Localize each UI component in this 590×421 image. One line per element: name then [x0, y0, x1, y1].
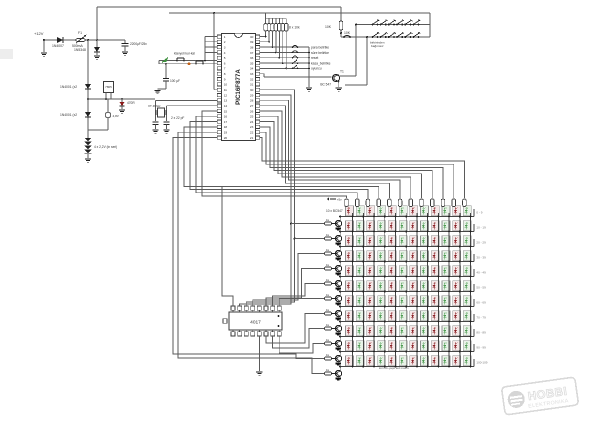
resistor RC8 column 8 [420, 199, 424, 207]
led D115 row 10 col 7 red [410, 341, 418, 351]
wire matrix row 5 [341, 269, 474, 277]
transistor Q8 row 7 [332, 310, 342, 316]
wire Q12 collector to row 11 [339, 365, 341, 371]
led D44 row 4 col 8 green [421, 251, 429, 261]
led D32 row 3 col 8 green [421, 236, 429, 246]
wire button common to ground [308, 47, 310, 87]
led D97 row 9 col 1 red [346, 326, 354, 336]
wire +12V down [43, 40, 45, 52]
svg-text:20: 20 [224, 136, 228, 140]
wire column 6 feed [399, 205, 401, 208]
svg-text:26: 26 [250, 109, 254, 113]
transistor Q12 row 11 [332, 370, 342, 376]
svg-text:6: 6 [224, 61, 226, 65]
wire column 9 feed [431, 205, 433, 208]
led D18 row 2 col 6 green [399, 221, 407, 231]
wire Q11 collector to row 10 [339, 350, 341, 356]
wire column 11 [459, 213, 461, 367]
resistor RC9 column 9 [430, 199, 434, 207]
svg-text:1N4001 (x2: 1N4001 (x2 [60, 113, 77, 117]
wire U1 pin 25 to matrix column 8 [260, 116, 421, 198]
svg-text:70 - 79: 70 - 79 [476, 316, 486, 320]
led D102 row 9 col 6 green [399, 326, 407, 336]
led D131 row 11 col 11 red [453, 356, 461, 366]
led D83 row 7 col 11 red [453, 296, 461, 306]
wire Q4 collector to row 3 [339, 245, 341, 251]
wire Q4 emitter ground [336, 257, 341, 261]
svg-text:14: 14 [224, 104, 228, 108]
svg-text:31: 31 [250, 83, 254, 87]
wire main vertical to regulator section [87, 40, 89, 138]
resistor R17 1k [325, 323, 332, 330]
wire matrix row 8 [341, 314, 474, 322]
wire matrix row 7 [341, 299, 474, 307]
wire matrix row 9 [341, 329, 474, 337]
node labels row 6 [476, 286, 486, 290]
wire U1 pin 21 to matrix column 12 [260, 138, 464, 198]
led D56 row 5 col 8 green [421, 266, 429, 276]
wire Q9 collector to row 8 [339, 320, 341, 326]
led D22 row 2 col 10 green [442, 221, 450, 231]
junction dots row 6 [352, 291, 472, 293]
wire pin 33 to T1 base [260, 74, 331, 77]
keypad row 1 wire [159, 60, 217, 62]
led D132 row 11 col 12 green [463, 356, 471, 366]
svg-text:8: 8 [224, 72, 226, 76]
svg-text:12: 12 [224, 93, 228, 97]
led D59 row 5 col 11 red [453, 266, 461, 276]
resistor RC5 column 5 [388, 199, 392, 207]
wire column 9 [437, 213, 439, 367]
led D107 row 9 col 11 red [453, 326, 461, 336]
svg-text:60 - 69: 60 - 69 [476, 301, 486, 305]
led D100 row 9 col 4 green [378, 326, 386, 336]
led D55 row 5 col 7 red [410, 266, 418, 276]
led D49 row 5 col 1 red [346, 266, 354, 276]
svg-text:reset: reset [311, 56, 318, 60]
transistor Q9 row 8 [332, 325, 342, 331]
svg-text:7805: 7805 [105, 85, 112, 89]
resistor RC11 column 11 [452, 199, 456, 207]
ground below diode stack [85, 154, 91, 162]
led D127 row 11 col 7 red [410, 356, 418, 366]
resistor R3 10K on row B [343, 35, 351, 38]
wire row B aux drop [345, 36, 368, 85]
svg-text:BC 547: BC 547 [320, 83, 331, 87]
led D43 row 4 col 7 red [410, 251, 418, 261]
led D125 row 11 col 5 red [388, 356, 396, 366]
led D19 row 2 col 7 red [410, 221, 418, 231]
resistor R2 10K [325, 7, 343, 37]
wire U3 ground [258, 336, 260, 371]
led D94 row 8 col 10 green [442, 311, 450, 321]
led D47 row 4 col 11 red [453, 251, 461, 261]
led D88 row 8 col 4 green [378, 311, 386, 321]
svg-text:klavyeli kur-kal: klavyeli kur-kal [174, 52, 195, 56]
svg-text:XT 4MHz: XT 4MHz [148, 104, 161, 108]
wire U1 pin 24 to matrix column 9 [260, 122, 432, 198]
switch S1 green [162, 58, 168, 63]
led D92 row 8 col 8 green [421, 311, 429, 321]
resistor R10 1k [325, 218, 332, 225]
svg-text:18: 18 [224, 125, 228, 129]
led D87 row 8 col 3 red [367, 311, 375, 321]
led D68 row 6 col 8 green [421, 281, 429, 291]
switch bank row A [371, 20, 420, 26]
led D70 row 6 col 10 green [442, 281, 450, 291]
node labels row 2 [476, 226, 486, 230]
node +5v marker [327, 198, 343, 202]
wire U3 Q3 to row 4 driver [266, 269, 325, 307]
ground below C2 [152, 130, 158, 133]
led D41 row 4 col 5 red [388, 251, 396, 261]
wire fuse to node [85, 39, 98, 41]
svg-text:39: 39 [250, 40, 254, 44]
led D118 row 10 col 10 green [442, 341, 450, 351]
wire matrix row 1 [341, 209, 474, 217]
svg-text:470R: 470R [127, 101, 135, 105]
wire column 8 feed [421, 205, 423, 208]
wire Q9 emitter ground [336, 332, 341, 336]
wire Q7 collector to row 6 [339, 290, 341, 296]
svg-text:100-109: 100-109 [476, 361, 487, 365]
led D30 row 3 col 6 green [399, 236, 407, 246]
wire Q5 emitter ground [336, 272, 341, 276]
led D9 row 1 col 9 red [431, 206, 439, 216]
svg-text:40: 40 [250, 35, 254, 39]
led D114 row 10 col 6 green [399, 341, 407, 351]
resistor R18 1k [325, 338, 332, 345]
led D42 row 4 col 6 green [399, 251, 407, 261]
svg-text:10 - 19: 10 - 19 [476, 226, 486, 230]
junction dots row 3 [352, 246, 472, 248]
wire U1 pin 18 to matrix column 4 [184, 127, 379, 198]
resistor RC7 column 7 [409, 199, 413, 207]
wire Q7 emitter ground [336, 302, 341, 306]
led D116 row 10 col 8 green [421, 341, 429, 351]
svg-text:34: 34 [250, 67, 254, 71]
svg-text:kırmızı-yeşil led matrix: kırmızı-yeşil led matrix [379, 366, 409, 370]
node labels row 3 [476, 241, 486, 245]
svg-text:19: 19 [224, 131, 228, 135]
label matrix type [379, 366, 409, 370]
led D35 row 3 col 11 red [453, 236, 461, 246]
wire switch row B [341, 36, 430, 38]
node labels row 8 [476, 316, 486, 320]
wire Q11 emitter ground [336, 362, 341, 366]
wire U1 pin 15 to matrix column 1 [202, 111, 347, 198]
label driver transistors [326, 209, 343, 213]
led D23 row 2 col 11 red [453, 221, 461, 231]
diode D3 1N4001 upper [60, 84, 91, 89]
U1 left pins 1-20 [217, 35, 227, 140]
wire U3 Q5 to row 6 driver [279, 299, 324, 307]
led D10 row 1 col 10 green [442, 206, 450, 216]
keypad row 2 wire [159, 61, 217, 64]
svg-text:1N5348: 1N5348 [74, 48, 86, 52]
led D76 row 7 col 4 green [378, 296, 386, 306]
ground below C3 [163, 130, 169, 133]
led D2 row 1 col 2 green [356, 206, 364, 216]
wire Q5 collector to row 4 [339, 260, 341, 266]
node labels row 9 [476, 331, 486, 335]
capacitor C1 2200uF [122, 40, 148, 51]
wire column 4 feed [378, 205, 380, 208]
wire column 3 [373, 213, 375, 367]
wire Q10 emitter ground [336, 347, 341, 351]
wire U1 pin 20 to row 10 driver [173, 138, 325, 359]
svg-text:21: 21 [250, 136, 254, 140]
wire U3 Q4 to row 5 driver [273, 284, 325, 307]
transistor Q5 row 4 [332, 265, 342, 271]
fuse F1 500mA [72, 31, 86, 48]
led D38 row 4 col 2 green [356, 251, 364, 261]
wire U1 pin 22 to matrix column 11 [260, 132, 454, 198]
led D63 row 6 col 3 red [367, 281, 375, 291]
led D13 row 2 col 1 red [346, 221, 354, 231]
junction dots row 10 [352, 351, 472, 353]
wire U1 pin 27 to matrix column 5 [260, 106, 389, 198]
node labels row 5 [476, 271, 486, 275]
node labels row 7 [476, 301, 486, 305]
resistor R11 1k [325, 233, 332, 240]
wire column 2 feed [356, 205, 358, 208]
svg-text:32: 32 [250, 77, 254, 81]
led D45 row 4 col 9 red [431, 251, 439, 261]
label switch bank [370, 41, 385, 49]
led D66 row 6 col 6 green [399, 281, 407, 291]
junction dots row 5 [352, 276, 472, 278]
svg-text:17: 17 [224, 120, 228, 124]
+5v rail from regulator [87, 98, 155, 100]
wire U1 pin 19 to row 11 driver [178, 132, 325, 373]
led D101 row 9 col 5 red [388, 326, 396, 336]
svg-text:2200µF/25v: 2200µF/25v [130, 42, 147, 46]
ground below +12V node [41, 53, 47, 56]
diode D1 1N4007 [52, 37, 64, 48]
svg-text:33: 33 [250, 72, 254, 76]
led D39 row 4 col 3 red [367, 251, 375, 261]
svg-text:15: 15 [224, 109, 228, 113]
led D69 row 6 col 9 red [431, 281, 439, 291]
wire Q8 collector to row 7 [339, 305, 341, 311]
led D123 row 11 col 3 red [367, 356, 375, 366]
led D90 row 8 col 6 green [399, 311, 407, 321]
wire matrix row 11 [341, 359, 474, 367]
transistor Q3 row 2 [332, 235, 342, 241]
svg-text:PIC16F877A: PIC16F877A [235, 69, 242, 105]
svg-text:24: 24 [250, 120, 254, 124]
led D72 row 6 col 12 green [463, 281, 471, 291]
node labels row 11 [476, 361, 487, 365]
led D121 row 11 col 1 red [346, 356, 354, 366]
node labels row 10 [476, 346, 486, 350]
wire block right edge [429, 13, 431, 37]
counter U3 4017 body [229, 312, 282, 330]
led D113 row 10 col 5 red [388, 341, 396, 351]
wire U3 Q7 to row 8 driver [273, 329, 325, 349]
led D112 row 10 col 4 green [378, 341, 386, 351]
wire node up to top rail [96, 7, 98, 40]
led D14 row 2 col 2 green [356, 221, 364, 231]
led D62 row 6 col 2 green [356, 281, 364, 291]
svg-text:36: 36 [250, 56, 254, 60]
svg-text:100 µF: 100 µF [170, 79, 180, 83]
node +12V supply input [34, 31, 45, 41]
led D61 row 6 col 1 red [346, 281, 354, 291]
svg-text:16: 16 [224, 115, 228, 119]
svg-text:13: 13 [224, 99, 228, 103]
resistor R16 1k [325, 308, 332, 315]
wire MCLR pins 1-4 bus [205, 37, 217, 61]
svg-text:22: 22 [250, 131, 254, 135]
led D64 row 6 col 4 green [378, 281, 386, 291]
wire column 7 feed [410, 205, 412, 208]
led D21 row 2 col 9 red [431, 221, 439, 231]
svg-text:10 x BC547: 10 x BC547 [326, 209, 343, 213]
svg-text:29: 29 [250, 93, 254, 97]
junction dots row 4 [352, 261, 472, 263]
svg-text:1N4001 (x2: 1N4001 (x2 [60, 85, 77, 89]
ground U3 [256, 372, 262, 375]
svg-text:süre belirtke: süre belirtke [311, 51, 329, 55]
led D53 row 5 col 5 red [388, 266, 396, 276]
led D96 row 8 col 12 green [463, 311, 471, 321]
led D126 row 11 col 6 green [399, 356, 407, 366]
transistor Q7 row 6 [332, 295, 342, 301]
svg-text:4: 4 [224, 51, 226, 55]
led D109 row 10 col 1 red [346, 341, 354, 351]
transistor Q6 row 5 [332, 280, 342, 286]
svg-text:38: 38 [250, 45, 254, 49]
zener D2 1N5348 shunt [74, 40, 100, 55]
led D57 row 5 col 9 red [431, 266, 439, 276]
wire U1 pin 17 to matrix column 3 [190, 122, 368, 198]
wire Q2 emitter ground [336, 227, 341, 231]
svg-text:30 - 39: 30 - 39 [476, 256, 486, 260]
resistor network RN1 8x10k [264, 18, 300, 68]
led D26 row 3 col 2 green [356, 236, 364, 246]
junction dots row 8 [352, 321, 472, 323]
led D120 row 10 col 12 green [463, 341, 471, 351]
crystal X1 4MHz [148, 101, 167, 122]
U1 right pins 40-21 [250, 35, 260, 140]
resistor R19 1k [325, 353, 332, 360]
resistor RC4 column 4 [377, 199, 381, 207]
svg-text:4,8V: 4,8V [113, 114, 120, 118]
led D110 row 10 col 2 green [356, 341, 364, 351]
capacitor C4 100uF [158, 63, 181, 89]
ground below C1 [122, 52, 128, 55]
led D105 row 9 col 9 red [431, 326, 439, 336]
led D65 row 6 col 5 red [388, 281, 396, 291]
led D103 row 9 col 7 red [410, 326, 418, 336]
led D51 row 5 col 3 red [367, 266, 375, 276]
svg-text:8 x 10k: 8 x 10k [289, 26, 300, 30]
ground below C4 [154, 91, 160, 94]
resistor R15 1k [325, 293, 332, 300]
wire row 1 base tap [291, 223, 325, 225]
svg-text:9: 9 [224, 77, 226, 81]
label keypad setup [174, 52, 195, 56]
wire column 10 feed [442, 205, 444, 208]
wire top rail 1 [97, 6, 341, 8]
led D5 row 1 col 5 red [388, 206, 396, 216]
svg-text:90 - 99: 90 - 99 [476, 346, 486, 350]
wire column 12 [470, 213, 472, 367]
svg-text:T1: T1 [340, 70, 344, 74]
led D50 row 5 col 2 green [356, 266, 364, 276]
junction dots row 1 [352, 216, 472, 218]
wire node to capacitor C1 [97, 39, 125, 41]
wire +12V rail to diode [44, 39, 57, 41]
led D31 row 3 col 7 red [410, 236, 418, 246]
led D108 row 9 col 12 green [463, 326, 471, 336]
svg-text:F1: F1 [78, 31, 82, 35]
wire column 1 [352, 213, 354, 367]
wire matrix row 2 [341, 224, 474, 232]
wire matrix row 10 [341, 344, 474, 352]
led D86 row 8 col 2 green [356, 311, 364, 321]
logo watermark HOBBI ELEKTRONIKA [501, 377, 578, 415]
svg-text:oyuncu: oyuncu [311, 67, 322, 71]
wire U1 pin 16 to matrix column 2 [196, 116, 357, 198]
wire column 12 feed [463, 205, 465, 208]
led D24 row 2 col 12 green [463, 221, 471, 231]
wire column 5 feed [388, 205, 390, 208]
led D34 row 3 col 10 green [442, 236, 450, 246]
led D117 row 10 col 9 red [431, 341, 439, 351]
op-amp U1 PIC16F877A body [222, 34, 256, 141]
svg-text:25: 25 [250, 115, 254, 119]
wire diode to fuse [63, 39, 76, 41]
led D60 row 5 col 12 green [463, 266, 471, 276]
switch bank row B [371, 32, 420, 38]
resistor R20 1k [325, 368, 332, 375]
wire Q10 collector to row 9 [339, 335, 341, 341]
led D27 row 3 col 3 red [367, 236, 375, 246]
svg-text:7: 7 [224, 67, 226, 71]
wire column 2 [362, 213, 364, 367]
diode D4 1N4001 lower [60, 112, 91, 117]
wire column 5 [394, 213, 396, 367]
wire U3 Q6 to row 7 driver [266, 314, 325, 344]
wire VDD drop to pin 11 [214, 13, 217, 90]
wire Q12 emitter ground [336, 377, 341, 381]
led L1 with resistor 470R [120, 99, 136, 109]
wire Q8 emitter ground [336, 317, 341, 321]
junction dots row 2 [352, 231, 472, 233]
led D54 row 5 col 6 green [399, 266, 407, 276]
wire U1 pin 26 to matrix column 7 [260, 111, 411, 198]
svg-text:bağımsız: bağımsız [371, 44, 384, 48]
led D89 row 8 col 5 red [388, 311, 396, 321]
svg-text:5: 5 [224, 56, 226, 60]
junction dots row 11 [352, 366, 472, 368]
led D128 row 11 col 8 green [421, 356, 429, 366]
resistor RC1 column 1 [345, 199, 349, 207]
led D75 row 7 col 3 red [367, 296, 375, 306]
led D8 row 1 col 8 green [421, 206, 429, 216]
svg-text:1: 1 [224, 35, 226, 39]
transistor Q2 row 1 [332, 220, 342, 226]
led D98 row 9 col 2 green [356, 326, 364, 336]
wire column 3 feed [367, 205, 369, 208]
led D82 row 7 col 10 green [442, 296, 450, 306]
led D106 row 9 col 10 green [442, 326, 450, 336]
wire column 8 [427, 213, 429, 367]
led D46 row 4 col 10 green [442, 251, 450, 261]
